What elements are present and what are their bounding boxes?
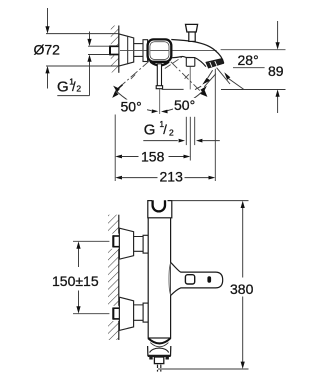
water drops — [158, 365, 161, 372]
svg-text:150±15: 150±15 — [52, 273, 99, 289]
svg-text:/: / — [163, 122, 167, 137]
28 deg pointer arrow — [224, 72, 230, 80]
svg-text:G: G — [144, 122, 156, 139]
dimension G1/2 inlet arrows — [88, 32, 109, 96]
right extension line (spout tip) — [214, 69, 216, 181]
svg-text:50°: 50° — [121, 99, 142, 115]
nipple hole in wall (white) — [109, 46, 119, 56]
hand shower outlet stub under spout — [186, 58, 195, 67]
thermostat body (vertical) — [148, 201, 170, 338]
dimension 380 — [158, 201, 249, 369]
escutcheon cone of S-union — [119, 34, 134, 66]
dimension 158 — [115, 155, 122, 159]
lever handle (right side) — [171, 263, 223, 296]
wall hatching (bottom view wall) — [108, 215, 119, 340]
spout joint arcs at body bottom — [148, 338, 170, 343]
stub center extension line — [189, 67, 191, 90]
second stream line — [204, 74, 216, 87]
swing arc right — [163, 92, 203, 112]
body handle square (side view) — [148, 39, 172, 61]
dimension 150±15 — [73, 241, 109, 313]
dimension Ø72 — [46, 8, 119, 89]
wall face line bottom — [118, 215, 120, 340]
diverter knob on top of spout — [186, 24, 198, 32]
dimension 213 — [115, 176, 122, 180]
cup feet — [149, 357, 152, 360]
left swing line 50deg (dash-dot) — [116, 61, 150, 91]
left extension line for 158/213 — [114, 115, 116, 182]
spout outlet aerator (dark slab) — [206, 59, 224, 69]
square detail on lever — [185, 275, 194, 284]
top S-union neck — [134, 237, 144, 252]
28 deg leg line — [217, 68, 230, 84]
bottom S-union neck — [134, 305, 144, 320]
wall hatching (top view wall) — [111, 26, 119, 73]
G1/2 inlet nipple — [110, 46, 120, 56]
svg-text:213: 213 — [160, 168, 184, 184]
spout cup — [148, 346, 171, 356]
svg-text:Ø72: Ø72 — [34, 42, 61, 58]
nipple holes in wall — [108, 234, 119, 249]
spout outline — [171, 40, 223, 64]
top S-union escutcheon — [119, 228, 133, 259]
top S-union nut — [143, 235, 148, 253]
right swing line 50deg (dash-dot) — [171, 62, 200, 91]
svg-text:50°: 50° — [174, 97, 195, 113]
hand shower holder U-notch — [152, 199, 168, 202]
bottom S-union escutcheon — [119, 297, 133, 330]
lever stem pointing down — [157, 64, 161, 89]
stem centerline extension — [159, 89, 161, 114]
svg-text:89: 89 — [268, 63, 284, 79]
slot detail on lever — [207, 276, 211, 283]
dimension 89 — [162, 21, 286, 113]
top nipple — [113, 235, 119, 247]
spout underside — [171, 56, 206, 66]
wall face line — [118, 26, 120, 73]
svg-text:28°: 28° — [238, 52, 259, 68]
union nut before body — [143, 40, 148, 62]
svg-text:2: 2 — [169, 127, 174, 137]
swing arc left — [116, 91, 152, 111]
svg-text:158: 158 — [141, 148, 165, 164]
svg-text:G: G — [57, 79, 69, 96]
short diagonal dash (aux) — [165, 57, 182, 69]
pipe from escutcheon to body — [134, 44, 148, 57]
svg-text:380: 380 — [230, 281, 254, 297]
bottom S-union nut — [143, 303, 148, 322]
aerator stub — [154, 357, 163, 364]
faucet axis line / 89 top extension — [120, 49, 286, 52]
escutcheon band line — [127, 36, 129, 63]
lever bell under body — [150, 62, 169, 66]
lever bell rim — [169, 263, 171, 295]
svg-text:2: 2 — [76, 84, 81, 94]
water stream arrow at spout outlet — [208, 70, 213, 78]
svg-text:/: / — [72, 79, 76, 94]
bottom nipple — [113, 308, 119, 320]
G1/2 lower dimension extension lines — [186, 117, 194, 161]
holder bracket — [148, 201, 172, 218]
aux tick marks — [185, 74, 189, 78]
G1/2 lower dimension arrows — [179, 139, 185, 143]
50 deg labels — [120, 100, 148, 114]
